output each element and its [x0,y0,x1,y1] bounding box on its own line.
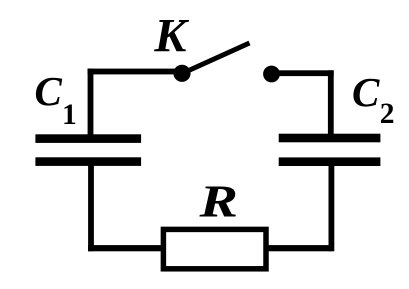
wire top-left horizontal [88,69,183,75]
svg-text:1: 1 [62,99,77,131]
wire left vertical upper [88,69,94,136]
svg-text:C: C [35,68,63,114]
wire right vertical upper [328,70,334,138]
switch K right contact dot [263,66,280,83]
wire right vertical lower [329,162,335,251]
capacitor C2 bottom plate [279,157,381,166]
capacitor C1 top plate [35,134,141,143]
svg-text:K: K [153,10,189,63]
svg-text:2: 2 [380,98,395,130]
capacitor C1 bottom plate [35,157,141,166]
svg-text:C: C [352,69,380,115]
wire bottom-right horizontal [266,245,331,251]
svg-text:R: R [198,176,238,226]
wire left vertical lower [88,162,94,251]
wire bottom-left horizontal [88,245,163,251]
wire top-right horizontal [272,70,334,76]
switch K blade [182,43,250,74]
capacitor C2 top plate [279,134,381,143]
switch K left contact dot [173,65,190,82]
resistor R body [163,229,266,268]
